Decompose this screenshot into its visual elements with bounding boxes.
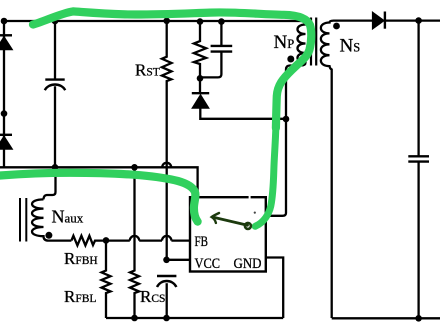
transformer core line right	[315, 18, 317, 66]
svg-text:GND: GND	[234, 256, 262, 272]
svg-text:Naux: Naux	[52, 207, 84, 227]
wire output cap bottom	[417, 162, 419, 319]
svg-text:NS: NS	[340, 36, 361, 57]
junction dot FB node	[103, 237, 110, 244]
svg-text:RFBH: RFBH	[64, 249, 98, 268]
snubber capacitor plate 2	[211, 50, 233, 52]
capacitor Cvcc flat plate	[157, 275, 176, 277]
Naux core line left	[19, 198, 21, 242]
snubber capacitor top wire	[220, 21, 222, 45]
resistor RFBL	[102, 241, 111, 318]
polarity dot Np	[287, 56, 294, 63]
polarity dot Ns	[333, 23, 340, 30]
IC top edge gap artifact	[249, 195, 251, 200]
transformer core line left	[310, 18, 312, 66]
resistor RFBH zigzag	[71, 236, 106, 246]
capacitor Cvcc curved plate	[157, 281, 176, 287]
wire output top rail	[386, 19, 440, 21]
diode D1 (bridge, cathode bar)	[0, 34, 12, 36]
junction dot RCS bottom	[131, 315, 138, 322]
capacitor bulk Cin curved plate	[45, 85, 65, 91]
resistor RCS line from mid rail	[130, 167, 139, 318]
current arrow shaft inside IC	[213, 217, 248, 225]
junction dot bulk cap top	[52, 18, 59, 25]
capacitor Cout plate 2	[408, 160, 429, 162]
winding Ns and output diode anode wire	[321, 21, 373, 318]
junction dot snubber R top	[197, 18, 204, 25]
wire top rail + primary winding Np + drain wire	[4, 21, 306, 216]
junction dot RCS on mid rail	[131, 164, 138, 171]
green highlight top rail path	[33, 11, 311, 128]
junction dot output bottom	[415, 315, 422, 322]
green highlight lower descent to IC	[255, 125, 276, 226]
junction dot switch node	[283, 116, 290, 123]
capacitor bulk Cin flat plate	[45, 78, 64, 80]
Naux core line right	[25, 198, 27, 242]
snubber diode anode wire to switch node	[200, 108, 286, 119]
junction dot top-left corner	[1, 18, 8, 25]
wire FB line with hops	[106, 239, 130, 241]
capacitor Cvcc bottom wire	[166, 283, 168, 318]
output diode cathode bar	[384, 12, 386, 29]
wire left bridge column	[3, 21, 5, 167]
wire output bottom rail	[332, 317, 440, 319]
diode D2 triangle	[0, 136, 13, 149]
polarity dot Naux	[45, 232, 52, 239]
svg-text:RCS: RCS	[140, 287, 165, 306]
junction dot snubber bottom	[197, 75, 204, 82]
wire FB line segment	[139, 239, 162, 241]
winding Naux	[32, 199, 71, 240]
wire VCC pin	[167, 259, 190, 261]
capacitor bulk Cin bottom wire	[54, 86, 56, 167]
diode D2 (bridge, cathode bar)	[0, 134, 12, 136]
current arrow tail ring	[245, 223, 251, 229]
junction dot RST top	[163, 18, 170, 25]
wire GND pin to bottom rail	[266, 258, 283, 319]
junction dot bridge mid	[1, 110, 8, 117]
hop arc over mid rail at RST line	[162, 163, 171, 167]
snubber capacitor bottom wire	[201, 52, 221, 78]
snubber diode cathode bar	[192, 92, 209, 94]
junction dot snubber C top	[218, 18, 225, 25]
wire bulk cap node down to Naux winding	[44, 167, 56, 199]
junction dot bulk cap on mid rail	[52, 164, 59, 171]
green highlight mid rail path	[0, 173, 198, 222]
svg-text:FB: FB	[195, 234, 209, 250]
junction dot output top	[415, 17, 422, 24]
snubber resistor	[194, 21, 206, 93]
diode D1 triangle	[0, 37, 13, 50]
capacitor Cout plate 1	[408, 155, 429, 157]
hop over VCC line	[162, 236, 171, 241]
artifact speck above GND	[254, 212, 256, 214]
svg-text:RFBL: RFBL	[64, 287, 96, 306]
output diode triangle	[372, 12, 384, 29]
wire mid rail	[0, 167, 198, 197]
junction dot VCC node	[163, 257, 170, 264]
svg-text:NP: NP	[274, 32, 295, 53]
svg-text:RST: RST	[135, 61, 160, 80]
wire bottom rail primary gnd	[106, 317, 283, 319]
junction dot Cvcc bottom	[163, 315, 170, 322]
hop over RCS line	[130, 236, 139, 241]
wire output cap top	[417, 21, 419, 156]
svg-text:VCC: VCC	[195, 256, 221, 272]
snubber capacitor plate 1	[211, 45, 233, 47]
snubber diode triangle	[192, 95, 209, 109]
current arrow head	[212, 213, 219, 223]
capacitor bulk Cin top wire	[54, 21, 56, 79]
IC U1 box	[190, 197, 266, 271]
wire FB line to IC	[171, 239, 190, 241]
resistor RST line and zigzag	[162, 21, 172, 260]
